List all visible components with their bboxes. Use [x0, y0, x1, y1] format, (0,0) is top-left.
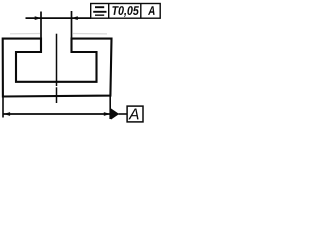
symmetry symbol bottom bar — [95, 14, 104, 16]
top arrowhead pointing right — [35, 16, 42, 20]
tolerance value T0,05 — [112, 6, 138, 17]
extension line bottom left — [2, 97, 4, 118]
datum letter A — [128, 109, 138, 120]
top arrowhead pointing left — [71, 16, 78, 20]
scan ghost above top edge left — [10, 33, 40, 35]
datum leader line — [119, 113, 128, 115]
feature control frame — [91, 4, 161, 19]
symmetry symbol top bar — [95, 6, 104, 8]
datum reference letter A in frame — [148, 6, 155, 15]
extension line right (slot width) — [71, 11, 73, 50]
frame divider 2 — [140, 4, 142, 19]
bottom arrowhead pointing left — [4, 112, 11, 116]
datum box — [127, 106, 143, 122]
top dimension line / leader to frame — [26, 17, 92, 19]
extension line left (slot width) — [40, 12, 42, 51]
datum triangle (filled, base on extension line) — [111, 108, 119, 119]
part outline (T-slot cross-section) — [3, 39, 112, 97]
frame divider 1 — [108, 4, 110, 19]
centerline (axis of symmetry) — [56, 34, 58, 103]
extension line bottom right — [109, 96, 111, 119]
bottom arrowhead pointing right — [104, 112, 111, 116]
symmetry symbol middle bar — [93, 11, 106, 13]
scan ghost above top edge right — [73, 33, 107, 35]
bottom dimension line — [4, 113, 111, 115]
